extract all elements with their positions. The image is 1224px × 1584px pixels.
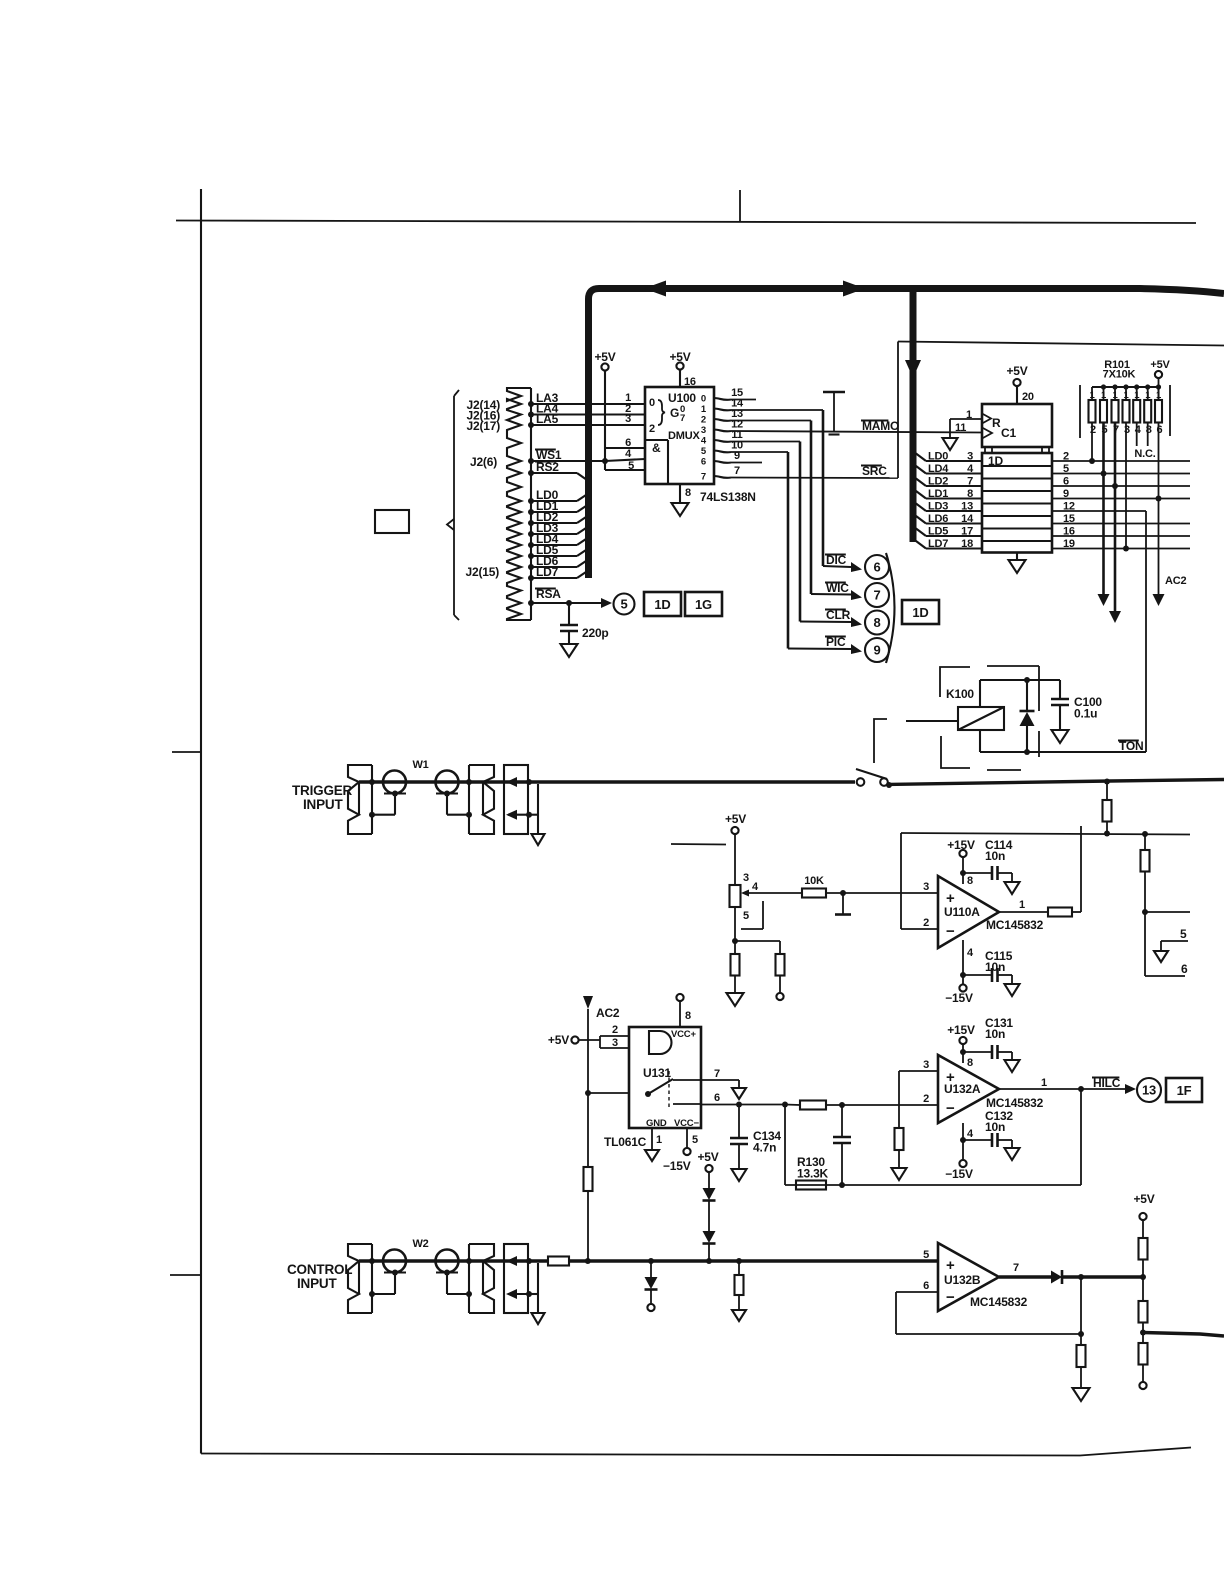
svg-text:13: 13: [1142, 1083, 1156, 1098]
svg-text:1: 1: [1041, 1077, 1047, 1089]
resistor R101 element x1158: [1158, 387, 1160, 400]
U131 pin1 ground: [651, 1128, 653, 1150]
clock wedge pin11: [982, 428, 992, 439]
svg-text:4.7n: 4.7n: [753, 1141, 776, 1155]
wire LD7: [531, 577, 577, 579]
wire latch out 19: [1052, 548, 1190, 550]
svg-text:U132B: U132B: [944, 1273, 981, 1287]
svg-text:LA5: LA5: [536, 412, 559, 426]
IC U131 box: [629, 1027, 701, 1128]
wire SRC from pin7: [731, 477, 898, 480]
wire LD6: [531, 566, 577, 568]
svg-text:3: 3: [923, 1059, 929, 1071]
svg-text:INPUT: INPUT: [303, 797, 343, 812]
svg-text:−: −: [946, 1289, 955, 1306]
svg-text:C1: C1: [1001, 426, 1016, 440]
svg-text:+15V: +15V: [947, 1023, 975, 1037]
svg-text:7: 7: [680, 413, 685, 424]
wire U132B output: [999, 1275, 1051, 1278]
capacitor C132 10n: [991, 1133, 994, 1147]
wire U131 pin7: [701, 1079, 739, 1081]
ground feedback load: [1073, 1388, 1090, 1401]
svg-text:74LS138N: 74LS138N: [700, 490, 756, 504]
wire R101 pin7 down to sheet arrow: [1114, 423, 1117, 612]
wire U132B pin6 feedback: [896, 1291, 938, 1293]
svg-text:10n: 10n: [985, 960, 1005, 974]
wire shield row: [372, 1293, 395, 1295]
svg-text:16: 16: [1063, 526, 1075, 538]
wire latch out 15: [1052, 523, 1190, 525]
svg-text:2: 2: [923, 1093, 929, 1105]
wire relay top node: [980, 679, 1060, 681]
bus arrow right: [843, 281, 865, 297]
wire TON vertical from latch row 12: [1145, 511, 1147, 752]
wire U132A output HILC: [999, 1088, 1131, 1090]
border top tick: [739, 190, 741, 221]
wire RSA: [531, 602, 601, 604]
resistor from trigger line: [1104, 779, 1110, 785]
svg-text:LD5: LD5: [928, 526, 948, 538]
wire latch out 12: [1052, 510, 1146, 512]
svg-text:LD0: LD0: [928, 451, 948, 463]
box 1D second: [902, 600, 939, 624]
resistor control to ground: [738, 1261, 740, 1275]
wire PIC from pin10: [731, 451, 788, 453]
IC C1 row dividers: [982, 465, 1052, 467]
ground C1 pin10: [1016, 553, 1018, 561]
svg-text:AC2: AC2: [1165, 575, 1186, 587]
svg-text:20: 20: [1022, 391, 1034, 403]
U131 pin5 -15V: [686, 1128, 688, 1148]
jumper W2 circle 1: [383, 1250, 406, 1273]
svg-text:1G: 1G: [695, 597, 712, 612]
connector plug left: [348, 765, 372, 834]
svg-text:W1: W1: [412, 759, 428, 771]
wire feedback top rail: [901, 833, 1190, 835]
svg-text:7: 7: [714, 1068, 720, 1080]
IC C1 latch box: [982, 453, 1052, 553]
svg-text:3: 3: [1124, 424, 1130, 436]
svg-text:13.3K: 13.3K: [797, 1167, 829, 1181]
stray segment: [671, 843, 726, 846]
svg-text:DMUX: DMUX: [668, 430, 700, 442]
svg-text:W2: W2: [412, 1238, 428, 1250]
svg-text:16: 16: [684, 376, 696, 388]
svg-text:1D: 1D: [912, 605, 928, 620]
svg-text:3: 3: [701, 425, 706, 436]
svg-text:220p: 220p: [582, 626, 609, 640]
wire U100 pin9 stub: [731, 462, 762, 464]
wire to U110A pin3: [826, 892, 938, 894]
wire WS1 to pin4: [605, 459, 645, 461]
wire LD2: [531, 522, 577, 524]
capacitor across feedback: [841, 1105, 843, 1137]
svg-text:3: 3: [923, 881, 929, 893]
svg-text:−15V: −15V: [945, 991, 973, 1005]
capacitor C134 4.7n: [738, 1105, 740, 1139]
resistor series into U132A: [785, 1104, 800, 1107]
wire shield row: [372, 814, 395, 816]
svg-text:8: 8: [873, 615, 880, 630]
svg-text:12: 12: [1063, 501, 1075, 513]
node 13 circled: [1137, 1078, 1161, 1102]
bus main horizontal+left drop: [589, 289, 1224, 579]
svg-text:−15V: −15V: [945, 1167, 973, 1181]
power +15V U110A pin8: [962, 857, 964, 884]
diode clamp 1: [703, 1188, 716, 1200]
arrow into node 8: [851, 617, 862, 627]
wire CLR from pin11: [731, 441, 800, 443]
R101 bracket bars: [1079, 385, 1081, 438]
svg-text:U110A: U110A: [944, 905, 980, 919]
wire latch out 9: [1052, 498, 1190, 500]
svg-text:3: 3: [743, 872, 749, 884]
relay K100: [958, 707, 1004, 730]
svg-text:0.1u: 0.1u: [1074, 707, 1097, 721]
svg-text:0: 0: [649, 397, 655, 409]
svg-text:8: 8: [685, 487, 691, 499]
wire LD4 to latch: [926, 472, 982, 474]
ground U100 pin8: [679, 484, 681, 503]
wire shield to ground: [528, 814, 538, 816]
resistor chain mid: [1139, 1301, 1148, 1323]
svg-text:LD3: LD3: [928, 501, 948, 513]
wire feedback riser: [1072, 911, 1081, 913]
svg-text:AC2: AC2: [596, 1006, 620, 1020]
wire R101 pin4 nc stub: [1136, 423, 1138, 447]
wire main row: [359, 1259, 528, 1262]
svg-text:10K: 10K: [804, 875, 824, 887]
wire control line with series resistor: [528, 1259, 548, 1262]
IC C1 top box: [982, 404, 1052, 447]
jumper pads: [384, 1271, 406, 1273]
wire SRC vertical riser: [897, 342, 899, 479]
resistor on AC2/pin4 net: [584, 1167, 593, 1191]
svg-text:+5V: +5V: [594, 350, 615, 364]
IC C1 tabs: [985, 447, 992, 453]
svg-text:7: 7: [734, 465, 740, 477]
border left vertical: [200, 189, 202, 1454]
svg-text:10n: 10n: [985, 1027, 1005, 1041]
wire LD4: [531, 544, 577, 546]
svg-text:N.C.: N.C.: [1134, 448, 1155, 460]
svg-text:5: 5: [692, 1134, 698, 1146]
power -15V U110A pin4: [962, 940, 964, 984]
potentiometer wiper: [741, 890, 749, 897]
svg-text:17: 17: [961, 526, 973, 538]
box 1D: [644, 592, 681, 616]
wire output right thick: [1143, 1333, 1224, 1337]
svg-text:+5V: +5V: [1006, 364, 1027, 378]
svg-text:3: 3: [612, 1037, 618, 1049]
arrow into node 6: [851, 562, 862, 572]
wire U110A pin2: [901, 928, 938, 930]
arrow into node 9: [851, 644, 862, 654]
svg-text:7X10K: 7X10K: [1103, 369, 1136, 381]
node WS1 junction: [602, 458, 608, 464]
svg-text:14: 14: [961, 513, 974, 525]
svg-text:+5V: +5V: [697, 1150, 718, 1164]
capacitor C100 0.1u: [1059, 680, 1061, 699]
border left tick 1: [172, 751, 201, 753]
op-amp U132A: [938, 1055, 999, 1123]
svg-text:1: 1: [656, 1134, 662, 1146]
svg-text:3: 3: [625, 413, 631, 425]
svg-text:U131: U131: [643, 1066, 671, 1080]
resistor feedback load: [1080, 1334, 1082, 1345]
node 7 circled: [865, 583, 889, 607]
ground net5: [1154, 951, 1168, 962]
bus branch arrow down: [905, 360, 921, 378]
svg-text:&: &: [652, 441, 661, 455]
feedback R130 13.3K: [1080, 1089, 1082, 1185]
svg-text:5: 5: [628, 460, 634, 472]
svg-text:10n: 10n: [985, 1120, 1005, 1134]
svg-text:8: 8: [1146, 424, 1152, 436]
svg-text:3: 3: [967, 451, 973, 463]
ground divider: [727, 993, 744, 1006]
node 6 circled: [865, 555, 889, 579]
node 8 circled: [865, 611, 889, 635]
wire net 5 bracket: [1161, 940, 1188, 942]
svg-text:1: 1: [1019, 899, 1025, 911]
svg-text:5: 5: [1180, 927, 1187, 941]
ground R pin: [943, 438, 958, 450]
wire MAMO from pin12: [731, 431, 982, 433]
svg-text:J2(17): J2(17): [467, 419, 501, 433]
wire main row: [359, 780, 528, 783]
svg-text:11: 11: [955, 422, 966, 434]
svg-text:6: 6: [923, 1280, 929, 1292]
U131 switch: [645, 1091, 651, 1097]
wire LA4: [531, 413, 645, 415]
svg-text:+: +: [946, 1257, 955, 1274]
ground C134: [732, 1169, 747, 1181]
svg-text:8: 8: [967, 1057, 973, 1069]
svg-text:+5V: +5V: [1150, 359, 1170, 371]
wire R101 pin6 down AC2 arrow: [1158, 423, 1160, 595]
resistor R101 element x1137: [1136, 387, 1138, 400]
ground C114: [1005, 882, 1020, 894]
stub cap on input: [842, 893, 844, 914]
arrow into node 7: [851, 590, 862, 600]
relay enclosure dashed outline: [940, 667, 970, 697]
wire pot bottom: [734, 907, 736, 941]
wire node out mid: [1145, 911, 1190, 913]
svg-text:6: 6: [873, 560, 880, 575]
svg-text:8: 8: [967, 875, 973, 887]
svg-text:5: 5: [743, 910, 749, 922]
ground C132: [1005, 1148, 1020, 1160]
box 1F: [1166, 1078, 1202, 1102]
svg-text:R: R: [992, 416, 1001, 430]
wire relay top pin: [979, 680, 981, 707]
svg-text:TL061C: TL061C: [604, 1135, 647, 1149]
clock wedge pin1: [982, 414, 991, 424]
wire net 6: [1145, 975, 1185, 977]
svg-text:LD7: LD7: [928, 538, 948, 550]
svg-text:15: 15: [1063, 513, 1075, 525]
node 9 circled: [865, 638, 889, 662]
potentiometer body: [730, 885, 741, 907]
border left tick 2: [170, 1274, 201, 1276]
svg-text:6: 6: [1063, 476, 1069, 488]
resistor chain right: [1144, 834, 1146, 850]
svg-text:MC145832: MC145832: [970, 1295, 1028, 1309]
wire LD0 to latch: [926, 460, 982, 462]
svg-text:MC145832: MC145832: [986, 918, 1044, 932]
jumper W2 circle 2: [436, 1250, 459, 1273]
svg-text:−: −: [946, 1100, 955, 1117]
connector J2 pin dots: [528, 401, 534, 407]
connector plug left: [348, 1244, 372, 1313]
wire LA5: [531, 424, 645, 426]
svg-text:7: 7: [967, 476, 973, 488]
svg-text:LD1: LD1: [928, 488, 948, 500]
wire DIC from pin14: [731, 409, 823, 411]
svg-text:U132A: U132A: [944, 1082, 981, 1096]
wire trigger line right: [888, 780, 1224, 785]
svg-text:6: 6: [701, 457, 706, 468]
wire shield to ground: [528, 1293, 538, 1295]
jumper W1 circle 2: [436, 771, 459, 794]
ground C131: [1005, 1060, 1020, 1072]
svg-text:2: 2: [701, 415, 706, 426]
wire R pin to ground: [950, 418, 982, 420]
svg-text:18: 18: [961, 538, 973, 550]
box 1G: [685, 592, 722, 616]
R101 top bus: [1092, 386, 1159, 388]
svg-text:K100: K100: [946, 687, 974, 701]
resistor divider right: [735, 940, 780, 942]
resistor R101 element x1104: [1103, 387, 1105, 400]
svg-text:LD7: LD7: [536, 565, 559, 579]
svg-text:INPUT: INPUT: [297, 1276, 337, 1291]
wire LD3 to latch: [926, 510, 982, 512]
power -15V U132A pin4: [962, 1123, 964, 1160]
diode output series: [1051, 1271, 1062, 1284]
bus arrow left: [644, 281, 666, 297]
U131 pin8 VCC+: [679, 1001, 681, 1027]
resistor chain bottom: [1139, 1343, 1148, 1365]
resistor R101 element x1115: [1114, 387, 1116, 400]
capacitor C115 10n: [991, 968, 994, 982]
capacitor stub on MAMO: [833, 392, 835, 432]
connector plug right: [469, 765, 494, 834]
svg-text:VCC−: VCC−: [674, 1118, 699, 1129]
wire WS1 to pin5: [604, 461, 606, 470]
wire relay bottom pin: [979, 730, 981, 752]
jumper pads: [384, 792, 406, 794]
svg-text:+5V: +5V: [548, 1033, 569, 1047]
op-amp U110A: [938, 876, 999, 948]
svg-text:2: 2: [649, 423, 655, 435]
svg-text:6: 6: [714, 1092, 720, 1104]
wire R101 pin8 nc stub: [1147, 423, 1149, 447]
diode flyback: [1026, 680, 1028, 712]
svg-text:−15V: −15V: [663, 1159, 691, 1173]
resistor chain top: [1139, 1238, 1148, 1260]
wire R101 pin5 down to sheet arrow: [1102, 423, 1105, 595]
wire relay bottom node to TON: [980, 751, 1146, 753]
diode clamp 2: [703, 1231, 716, 1243]
bracket select arrow: [453, 396, 455, 615]
border top horizontal: [176, 221, 1196, 224]
wire LA3: [531, 403, 645, 405]
svg-text:8: 8: [967, 488, 973, 500]
svg-text:10n: 10n: [985, 849, 1005, 863]
arrow RSA: [601, 598, 612, 608]
wire LD7 to latch: [926, 547, 982, 549]
resistor R101 element x1092: [1091, 387, 1093, 400]
wire LD6 to latch: [926, 522, 982, 524]
capacitor C114 10n: [991, 866, 994, 880]
wire RS2: [531, 472, 577, 474]
svg-text:J2(6): J2(6): [470, 455, 497, 469]
bus branch vertical: [910, 292, 917, 542]
connector arrow box: [504, 765, 528, 834]
ground shield: [532, 1313, 545, 1324]
wire LD1: [531, 511, 577, 513]
ground C115: [1005, 984, 1020, 996]
ground control resistor: [732, 1310, 746, 1321]
svg-text:0: 0: [701, 394, 706, 405]
wire WIC from pin13: [731, 420, 811, 422]
ground 220p: [561, 644, 578, 657]
svg-text:+5V: +5V: [1133, 1192, 1154, 1206]
ground pin7: [732, 1088, 746, 1099]
capacitor 220p: [568, 603, 570, 625]
arrow AC2 incoming: [583, 996, 593, 1009]
capacitor C131 10n: [991, 1045, 994, 1059]
svg-text:5: 5: [1063, 463, 1069, 475]
U131 input gate: [649, 1031, 672, 1054]
svg-text:GND: GND: [646, 1118, 667, 1129]
op-amp U132B: [938, 1243, 999, 1311]
svg-text:+15V: +15V: [947, 838, 975, 852]
svg-text:2: 2: [612, 1024, 618, 1036]
empty option box: [375, 510, 409, 533]
svg-text:6: 6: [1157, 424, 1163, 436]
wire U100 pin15 stub: [731, 399, 756, 401]
wire LD0: [531, 500, 577, 502]
svg-text:9: 9: [873, 643, 880, 658]
svg-text:5: 5: [620, 597, 627, 612]
IC U100 74LS138N box: [645, 387, 714, 484]
jumper W1 circle 1: [383, 771, 406, 794]
svg-text:VCC+: VCC+: [671, 1029, 696, 1040]
svg-text:13: 13: [961, 501, 973, 513]
svg-text:TRIGGER: TRIGGER: [292, 783, 353, 798]
svg-text:G: G: [670, 406, 679, 420]
wire U131 pin4: [588, 1092, 629, 1094]
wire latch out 2: [1052, 460, 1190, 462]
resistor 10K: [802, 889, 826, 898]
svg-text:2: 2: [1090, 424, 1096, 436]
svg-text:2: 2: [1063, 451, 1069, 463]
wire diagonals bus to latch inputs: [914, 452, 926, 461]
connector arrow box: [504, 1244, 528, 1313]
wire LD5: [531, 555, 577, 557]
svg-text:+5V: +5V: [725, 812, 746, 826]
resistor R101 element x1148: [1147, 387, 1149, 400]
node RSA junction: [566, 600, 572, 606]
arrow HILC: [1125, 1084, 1136, 1094]
svg-text:LD6: LD6: [928, 513, 948, 525]
wire U132A pin3 network: [899, 1070, 938, 1072]
U100 output stubs: [714, 398, 731, 400]
switch on trigger line: [857, 778, 865, 786]
